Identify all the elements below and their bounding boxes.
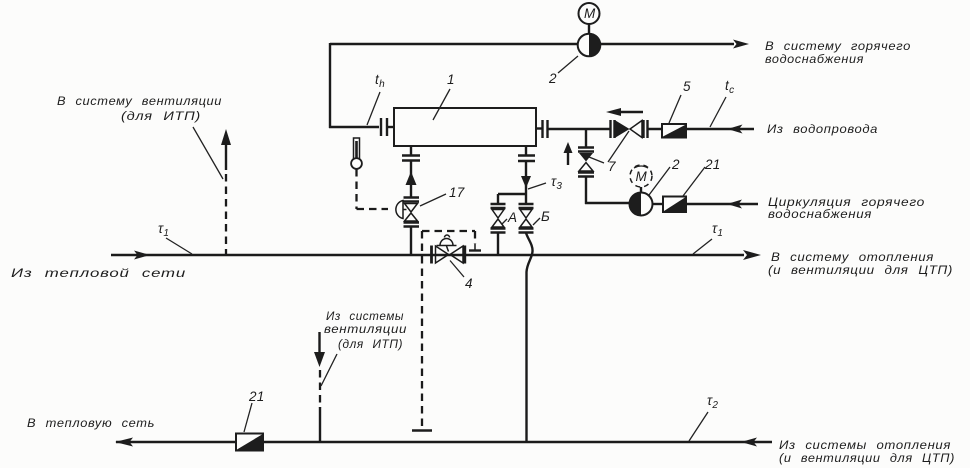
svg-text:водоснабжения: водоснабжения (768, 207, 872, 221)
svg-text:водоснабжения: водоснабжения (765, 52, 864, 66)
svg-text:вентиляции: вентиляции (324, 322, 407, 336)
svg-text:В систему отопления: В систему отопления (771, 250, 934, 264)
svg-text:17: 17 (449, 185, 465, 200)
svg-text:1: 1 (447, 72, 455, 87)
svg-text:(для ИТП): (для ИТП) (338, 337, 403, 351)
svg-text:(и вентиляции для ЦТП): (и вентиляции для ЦТП) (768, 263, 953, 277)
svg-text:2: 2 (548, 71, 557, 86)
svg-text:5: 5 (683, 79, 691, 94)
svg-text:Б: Б (541, 209, 550, 224)
svg-text:В систему горячего: В систему горячего (765, 39, 911, 53)
svg-text:Из системы отопления: Из системы отопления (779, 438, 951, 452)
svg-text:2: 2 (671, 157, 680, 172)
svg-text:M: M (584, 6, 596, 21)
svg-text:Из системы: Из системы (326, 309, 404, 323)
svg-text:M: M (636, 169, 648, 184)
svg-text:21: 21 (704, 157, 721, 172)
svg-text:(и вентиляции для ЦТП): (и вентиляции для ЦТП) (779, 451, 955, 465)
svg-text:В систему вентиляции: В систему вентиляции (57, 94, 222, 108)
svg-text:4: 4 (465, 276, 473, 291)
svg-text:21: 21 (248, 389, 265, 404)
svg-text:В тепловую сеть: В тепловую сеть (27, 416, 155, 430)
svg-text:Из тепловой сети: Из тепловой сети (11, 266, 186, 280)
svg-text:А: А (507, 210, 517, 225)
svg-text:(для ИТП): (для ИТП) (121, 109, 201, 123)
svg-text:Из водопровода: Из водопровода (767, 122, 878, 136)
